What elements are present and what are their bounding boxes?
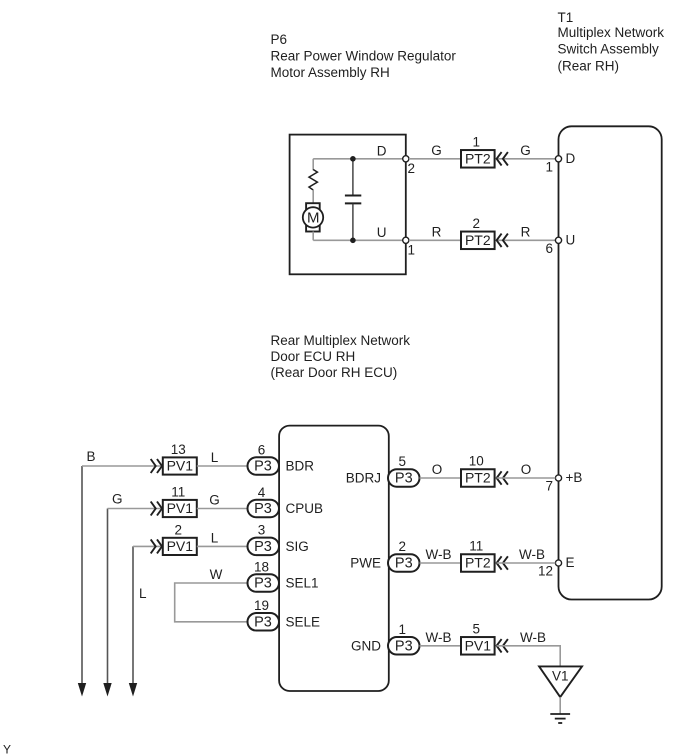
svg-text:P3: P3 xyxy=(254,614,272,630)
svg-text:PV1: PV1 xyxy=(167,538,194,554)
terminal circle switch E pin12 xyxy=(555,560,561,566)
terminal circle motor U pin1 xyxy=(403,237,409,243)
connector PV1 row SIG xyxy=(163,538,197,555)
svg-text:10: 10 xyxy=(469,454,484,469)
svg-text:L: L xyxy=(211,530,219,545)
svg-text:O: O xyxy=(521,462,532,477)
svg-text:G: G xyxy=(209,493,220,508)
svg-text:PT2: PT2 xyxy=(465,150,491,166)
svg-text:Door ECU RH: Door ECU RH xyxy=(271,349,356,364)
connector PV1 row CPUB xyxy=(163,500,197,517)
svg-text:6: 6 xyxy=(258,442,266,457)
svg-text:6: 6 xyxy=(545,241,553,256)
wire resistor to motor xyxy=(312,190,314,204)
svg-text:(Rear RH): (Rear RH) xyxy=(558,58,620,73)
svg-text:U: U xyxy=(377,225,387,240)
svg-text:PWE: PWE xyxy=(350,556,381,571)
switch assembly box T1 xyxy=(559,126,662,599)
svg-text:R: R xyxy=(521,224,531,239)
svg-text:V1: V1 xyxy=(552,669,569,684)
connector P3 GND xyxy=(388,637,420,655)
wire bottom inside motor box (node U) xyxy=(313,239,404,241)
wire L drop with arrow xyxy=(129,546,137,696)
svg-text:P3: P3 xyxy=(395,638,413,654)
svg-text:5: 5 xyxy=(399,454,407,469)
terminal circle switch U pin6 xyxy=(555,237,561,243)
motor M brush frame xyxy=(306,203,320,231)
svg-text:18: 18 xyxy=(254,559,269,574)
svg-text:D: D xyxy=(377,143,387,158)
svg-text:SEL1: SEL1 xyxy=(286,576,319,591)
terminal circle switch +B pin7 xyxy=(555,475,561,481)
junction dot node D xyxy=(350,156,356,162)
svg-text:W-B: W-B xyxy=(426,547,452,562)
svg-text:PV1: PV1 xyxy=(465,637,492,653)
svg-text:E: E xyxy=(566,555,575,570)
svg-text:Multiplex Network: Multiplex Network xyxy=(558,25,665,40)
wire motor to bottom xyxy=(312,232,314,241)
svg-text:CPUB: CPUB xyxy=(286,501,324,516)
ground point V1 triangle xyxy=(539,666,582,697)
svg-text:P6: P6 xyxy=(271,32,288,47)
svg-text:W: W xyxy=(210,567,223,582)
wire P3 to PV1 row GND xyxy=(420,645,462,647)
svg-text:(Rear Door RH ECU): (Rear Door RH ECU) xyxy=(271,365,398,380)
svg-text:3: 3 xyxy=(258,523,266,538)
wire P3 to PT2 row BDRJ xyxy=(420,477,462,479)
wire D row chevron to switch xyxy=(497,158,556,160)
svg-text:2: 2 xyxy=(408,161,416,176)
wire PV1 to P3 row SIG xyxy=(197,545,248,547)
svg-text:13: 13 xyxy=(171,442,186,457)
svg-text:P3: P3 xyxy=(254,501,272,517)
connector P3 PWE xyxy=(388,554,420,572)
svg-text:4: 4 xyxy=(258,485,266,500)
terminal circle motor D pin2 xyxy=(403,156,409,162)
wire U row motor to PT2 xyxy=(409,239,461,241)
svg-text:L: L xyxy=(139,586,147,601)
svg-text:PV1: PV1 xyxy=(167,500,194,516)
svg-text:P3: P3 xyxy=(395,556,413,572)
connector P3 SIG xyxy=(248,538,280,556)
capacitor stem bottom xyxy=(352,204,354,241)
svg-text:M: M xyxy=(307,209,320,226)
svg-text:W-B: W-B xyxy=(426,630,452,645)
wire P3 to PT2 row PWE xyxy=(420,562,462,564)
svg-text:R: R xyxy=(432,224,442,239)
wire D row motor to PT2 xyxy=(409,158,461,160)
chevron row BDR xyxy=(151,459,162,473)
connector PT2 row D xyxy=(461,150,495,168)
wire SEL1 to SELE loop xyxy=(175,583,248,622)
svg-text:BDR: BDR xyxy=(286,459,315,474)
svg-text:7: 7 xyxy=(545,479,553,494)
chevron row GND xyxy=(497,639,508,652)
resistor R xyxy=(309,170,317,191)
svg-text:Switch Assembly: Switch Assembly xyxy=(558,42,660,57)
terminal circle switch D pin1 xyxy=(555,156,561,162)
svg-text:P3: P3 xyxy=(254,459,272,475)
svg-text:P3: P3 xyxy=(254,576,272,592)
connector PV1 row BDR xyxy=(163,457,197,474)
wire U row chevron to switch xyxy=(497,239,556,241)
capacitor stem top xyxy=(352,159,354,195)
chevron row U xyxy=(497,234,508,247)
ECU box xyxy=(279,426,389,691)
chevron row BDRJ xyxy=(497,471,508,484)
svg-text:1: 1 xyxy=(473,135,481,150)
svg-text:B: B xyxy=(87,449,96,464)
svg-text:T1: T1 xyxy=(558,10,574,25)
svg-text:PT2: PT2 xyxy=(465,470,491,486)
connector PT2 row BDRJ xyxy=(461,469,495,487)
svg-text:2: 2 xyxy=(175,522,183,537)
wire PV1 to P3 row CPUB xyxy=(197,508,248,510)
chevron row PWE xyxy=(497,556,508,569)
chevron row CPUB xyxy=(151,502,162,516)
wire chevron to E terminal xyxy=(497,562,556,564)
ground symbol xyxy=(550,714,570,723)
svg-text:12: 12 xyxy=(538,564,553,579)
label T1 header xyxy=(558,10,665,73)
connector P3 BDR xyxy=(248,457,280,475)
connector PV1 row GND xyxy=(461,637,495,655)
connector P3 CPUB xyxy=(248,500,280,518)
label P6 header xyxy=(271,32,457,80)
svg-text:2: 2 xyxy=(473,216,481,231)
label Rear Door ECU header xyxy=(271,333,411,380)
wire B drop with arrow xyxy=(78,466,86,697)
svg-text:11: 11 xyxy=(469,539,483,554)
capacitor C top plate xyxy=(345,195,361,197)
wire B horizontal to PV1 xyxy=(82,465,163,467)
svg-text:L: L xyxy=(211,450,219,465)
connector P3 SELE xyxy=(248,613,280,631)
svg-text:Motor Assembly RH: Motor Assembly RH xyxy=(271,65,390,80)
wire chevron to +B terminal xyxy=(497,477,556,479)
connector P3 BDRJ xyxy=(388,469,420,487)
svg-text:D: D xyxy=(566,151,576,166)
wire G horizontal to PV1 xyxy=(108,508,164,510)
junction dot node U xyxy=(350,238,356,244)
svg-text:G: G xyxy=(431,143,442,158)
wire G drop with arrow xyxy=(103,509,111,697)
motor assembly box P6 xyxy=(290,135,406,275)
svg-text:PV1: PV1 xyxy=(167,458,194,474)
motor M circle xyxy=(303,207,323,227)
chevron row SIG xyxy=(151,539,162,553)
svg-text:P3: P3 xyxy=(395,471,413,487)
svg-text:G: G xyxy=(112,492,123,507)
svg-text:5: 5 xyxy=(473,622,481,637)
svg-text:19: 19 xyxy=(254,598,269,613)
svg-text:1: 1 xyxy=(399,622,407,637)
connector P3 SEL1 xyxy=(248,574,280,592)
svg-text:SIG: SIG xyxy=(286,539,309,554)
svg-text:Rear Power Window Regulator: Rear Power Window Regulator xyxy=(271,48,457,63)
svg-text:+B: +B xyxy=(566,470,583,485)
svg-text:11: 11 xyxy=(171,484,185,499)
svg-text:W-B: W-B xyxy=(519,547,545,562)
svg-text:SELE: SELE xyxy=(286,614,321,629)
svg-text:1: 1 xyxy=(545,160,553,175)
svg-text:Rear Multiplex Network: Rear Multiplex Network xyxy=(271,333,411,348)
wire left branch to resistor xyxy=(312,159,314,170)
chevron row D xyxy=(497,152,508,165)
wire chevron to V1 xyxy=(497,646,561,666)
wire V1 to ground xyxy=(559,697,561,713)
svg-text:W-B: W-B xyxy=(520,630,546,645)
wire L horizontal to PV1 xyxy=(133,545,163,547)
svg-text:P3: P3 xyxy=(254,539,272,555)
capacitor C bottom plate xyxy=(345,202,361,204)
svg-text:U: U xyxy=(566,232,576,247)
svg-text:O: O xyxy=(432,462,443,477)
svg-text:PT2: PT2 xyxy=(465,232,491,248)
wire PV1 to P3 row BDR xyxy=(197,465,248,467)
connector PT2 row PWE xyxy=(461,554,495,572)
connector PT2 row U xyxy=(461,232,495,250)
svg-text:Y: Y xyxy=(3,743,11,755)
svg-text:2: 2 xyxy=(399,539,407,554)
svg-text:BDRJ: BDRJ xyxy=(346,471,381,486)
svg-text:GND: GND xyxy=(351,638,381,653)
wire top inside motor box (node D) xyxy=(313,158,404,160)
svg-text:PT2: PT2 xyxy=(465,555,491,571)
svg-text:1: 1 xyxy=(408,242,416,257)
svg-text:G: G xyxy=(520,143,531,158)
